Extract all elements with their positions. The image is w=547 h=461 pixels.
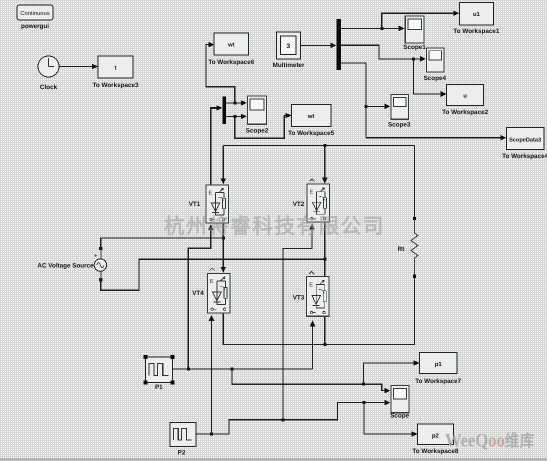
port caret VT4 top-left: [210, 268, 215, 271]
scope Scope: [391, 386, 409, 413]
wire AC source top: [101, 238, 224, 247]
svg-text:powergui: powergui: [21, 23, 49, 30]
svg-text:VT2: VT2: [293, 201, 305, 208]
scope Scope4: [427, 48, 444, 72]
wire leg down to VT4 top: [221, 238, 227, 273]
wire branch up to To Workspace1: [382, 10, 460, 28]
watermark weeqoo: [445, 430, 535, 451]
wire branch to To Workspace8: [364, 403, 418, 437]
svg-text:P2: P2: [178, 450, 186, 457]
wire tap to Scope3: [366, 104, 391, 110]
wire branch down to To Workspace2: [414, 59, 447, 97]
wire bottom rail VT4 to Rt: [223, 277, 414, 344]
bottom border strip: [0, 458, 547, 461]
svg-text:u1: u1: [473, 11, 481, 18]
node J7 AC top at VT leg: [222, 237, 225, 240]
port caret VT3 top-left: [309, 272, 314, 275]
scope Scope3: [391, 95, 408, 120]
wire VT3 bottom to rail: [324, 317, 326, 345]
svg-text:p1: p1: [435, 361, 443, 368]
svg-text:Scope2: Scope2: [246, 128, 269, 135]
svg-text:VT1: VT1: [189, 201, 201, 208]
svg-text:AC Voltage Source: AC Voltage Source: [37, 263, 94, 270]
wire rail drop to VT2 top: [322, 146, 328, 184]
powergui block: [17, 5, 53, 20]
to workspace2 block: [447, 85, 484, 106]
wire cathode rail top: [223, 145, 414, 147]
svg-text:VT4: VT4: [192, 290, 204, 297]
node J11 P1 at scope branch: [231, 367, 234, 370]
svg-text:3: 3: [286, 43, 290, 50]
wire P1 up to VT1 gate: [188, 224, 213, 369]
svg-text:ScopeData3: ScopeData3: [509, 138, 541, 144]
thyristor VT1: [206, 185, 229, 223]
svg-text:Scope: Scope: [390, 413, 409, 420]
pulse generator P1: [143, 355, 174, 385]
wire Demux1 out1 to Scope1: [341, 26, 405, 32]
svg-text:To Workspace6: To Workspace6: [208, 59, 254, 66]
scope Scope2: [247, 96, 266, 124]
node J14 P2 at VT2 gate: [281, 418, 284, 421]
svg-text:To Workspace5: To Workspace5: [288, 130, 334, 137]
to workspace8 block: [418, 424, 454, 444]
svg-text:+: +: [94, 254, 98, 260]
wire P1 up to VT3 gate: [310, 320, 316, 369]
wire Demux1 out3 down: [341, 63, 366, 138]
wire VT1 m up to Mux2: [211, 105, 223, 184]
wire P2 up to VT4 gate: [209, 315, 215, 434]
svg-text:VT3: VT3: [293, 295, 305, 302]
svg-text:wt: wt: [227, 43, 235, 49]
wire leg up to VT1 bottom: [222, 223, 224, 238]
clock: [38, 56, 59, 77]
wire P2 up to VT2 gate: [283, 224, 315, 420]
node J12 at To Workspace7 branch: [362, 383, 365, 386]
svg-text:Scope3: Scope3: [388, 122, 411, 129]
svg-text:To Workspace3: To Workspace3: [93, 82, 139, 89]
scope Scope1: [405, 16, 424, 43]
svg-text:P1: P1: [155, 384, 163, 391]
demux Demux1: [337, 19, 342, 70]
wire rail drop to Rt top: [413, 146, 415, 219]
svg-text:wt: wt: [307, 114, 315, 120]
node J2 on out2: [412, 57, 415, 60]
svg-text:To Workspace4: To Workspace4: [502, 153, 547, 160]
svg-text:Scope4: Scope4: [424, 75, 447, 82]
svg-text:t: t: [115, 66, 117, 72]
wire branch to To Workspace7: [364, 360, 420, 384]
pulse generator P2: [170, 423, 196, 447]
node J3 at Scope3 tap: [365, 105, 368, 108]
node J1 on out1: [380, 27, 383, 30]
svg-text:Rt: Rt: [398, 246, 406, 253]
wire P1 output run: [173, 368, 313, 370]
resistor Rt: [411, 217, 418, 278]
port caret VT2 top-left: [310, 179, 315, 182]
node J10 P1 at VT1 gate branch: [187, 367, 190, 370]
wire P1 branch to Scope in1: [232, 369, 390, 394]
svg-text:Continuous: Continuous: [20, 10, 49, 17]
to workspace7 block: [420, 353, 457, 374]
node J6 rail at VT2: [323, 144, 326, 147]
to workspace6 block: [214, 33, 249, 55]
wire out3 to ScopeData3: [366, 135, 506, 141]
node J4 on Scope2 in1: [233, 101, 236, 104]
svg-text:Clock: Clock: [40, 84, 58, 91]
svg-text:Multimeter: Multimeter: [273, 62, 305, 69]
node J13 P2 at VT4 gate: [210, 432, 213, 435]
thyristor VT4: [207, 273, 230, 313]
to workspace4 block ScopeData3: [506, 128, 544, 150]
svg-text:To Workspace2: To Workspace2: [442, 109, 488, 116]
AC voltage source: [94, 247, 107, 281]
node J5 on Scope2 in2: [233, 115, 236, 118]
node J15 P2 at To Workspace8 branch: [362, 401, 365, 404]
watermark chinese: [164, 217, 385, 238]
to workspace5 block: [292, 105, 331, 127]
thyristor VT3: [307, 277, 330, 317]
svg-text:To Workspace1: To Workspace1: [453, 28, 499, 35]
mux Mux2: [222, 96, 226, 124]
wire tap down to To Workspace5: [235, 113, 292, 139]
wire AC source bottom: [101, 259, 325, 290]
wire P2 output run: [197, 400, 391, 434]
node J8 AC bottom at VT2/VT3 leg: [323, 258, 326, 261]
wire Mux2 out1 to Scope2 in1: [226, 100, 247, 106]
svg-text:To Workspace7: To Workspace7: [415, 378, 461, 385]
svg-text:p2: p2: [432, 433, 440, 440]
wire Demux1 out2 to Scope4: [341, 45, 426, 62]
wire tap up to To Workspace6: [206, 42, 235, 103]
svg-text:u: u: [463, 94, 467, 100]
wire Multimeter to Demux1: [301, 43, 337, 49]
thyristor VT2: [307, 184, 330, 222]
svg-text:Scope1: Scope1: [403, 44, 426, 51]
wire VT2 bottom to VT3 top leg: [324, 223, 326, 277]
to workspace1 block: [459, 2, 493, 25]
wire Clock to To Workspace3: [59, 64, 98, 70]
node J9 bottom rail at VT3: [323, 343, 326, 346]
wire rail drop to VT1 top: [221, 146, 227, 185]
multimeter U1: [277, 32, 301, 59]
to workspace3 block: [98, 56, 133, 78]
wire Mux2 out2 to Scope2 in2: [226, 114, 247, 120]
